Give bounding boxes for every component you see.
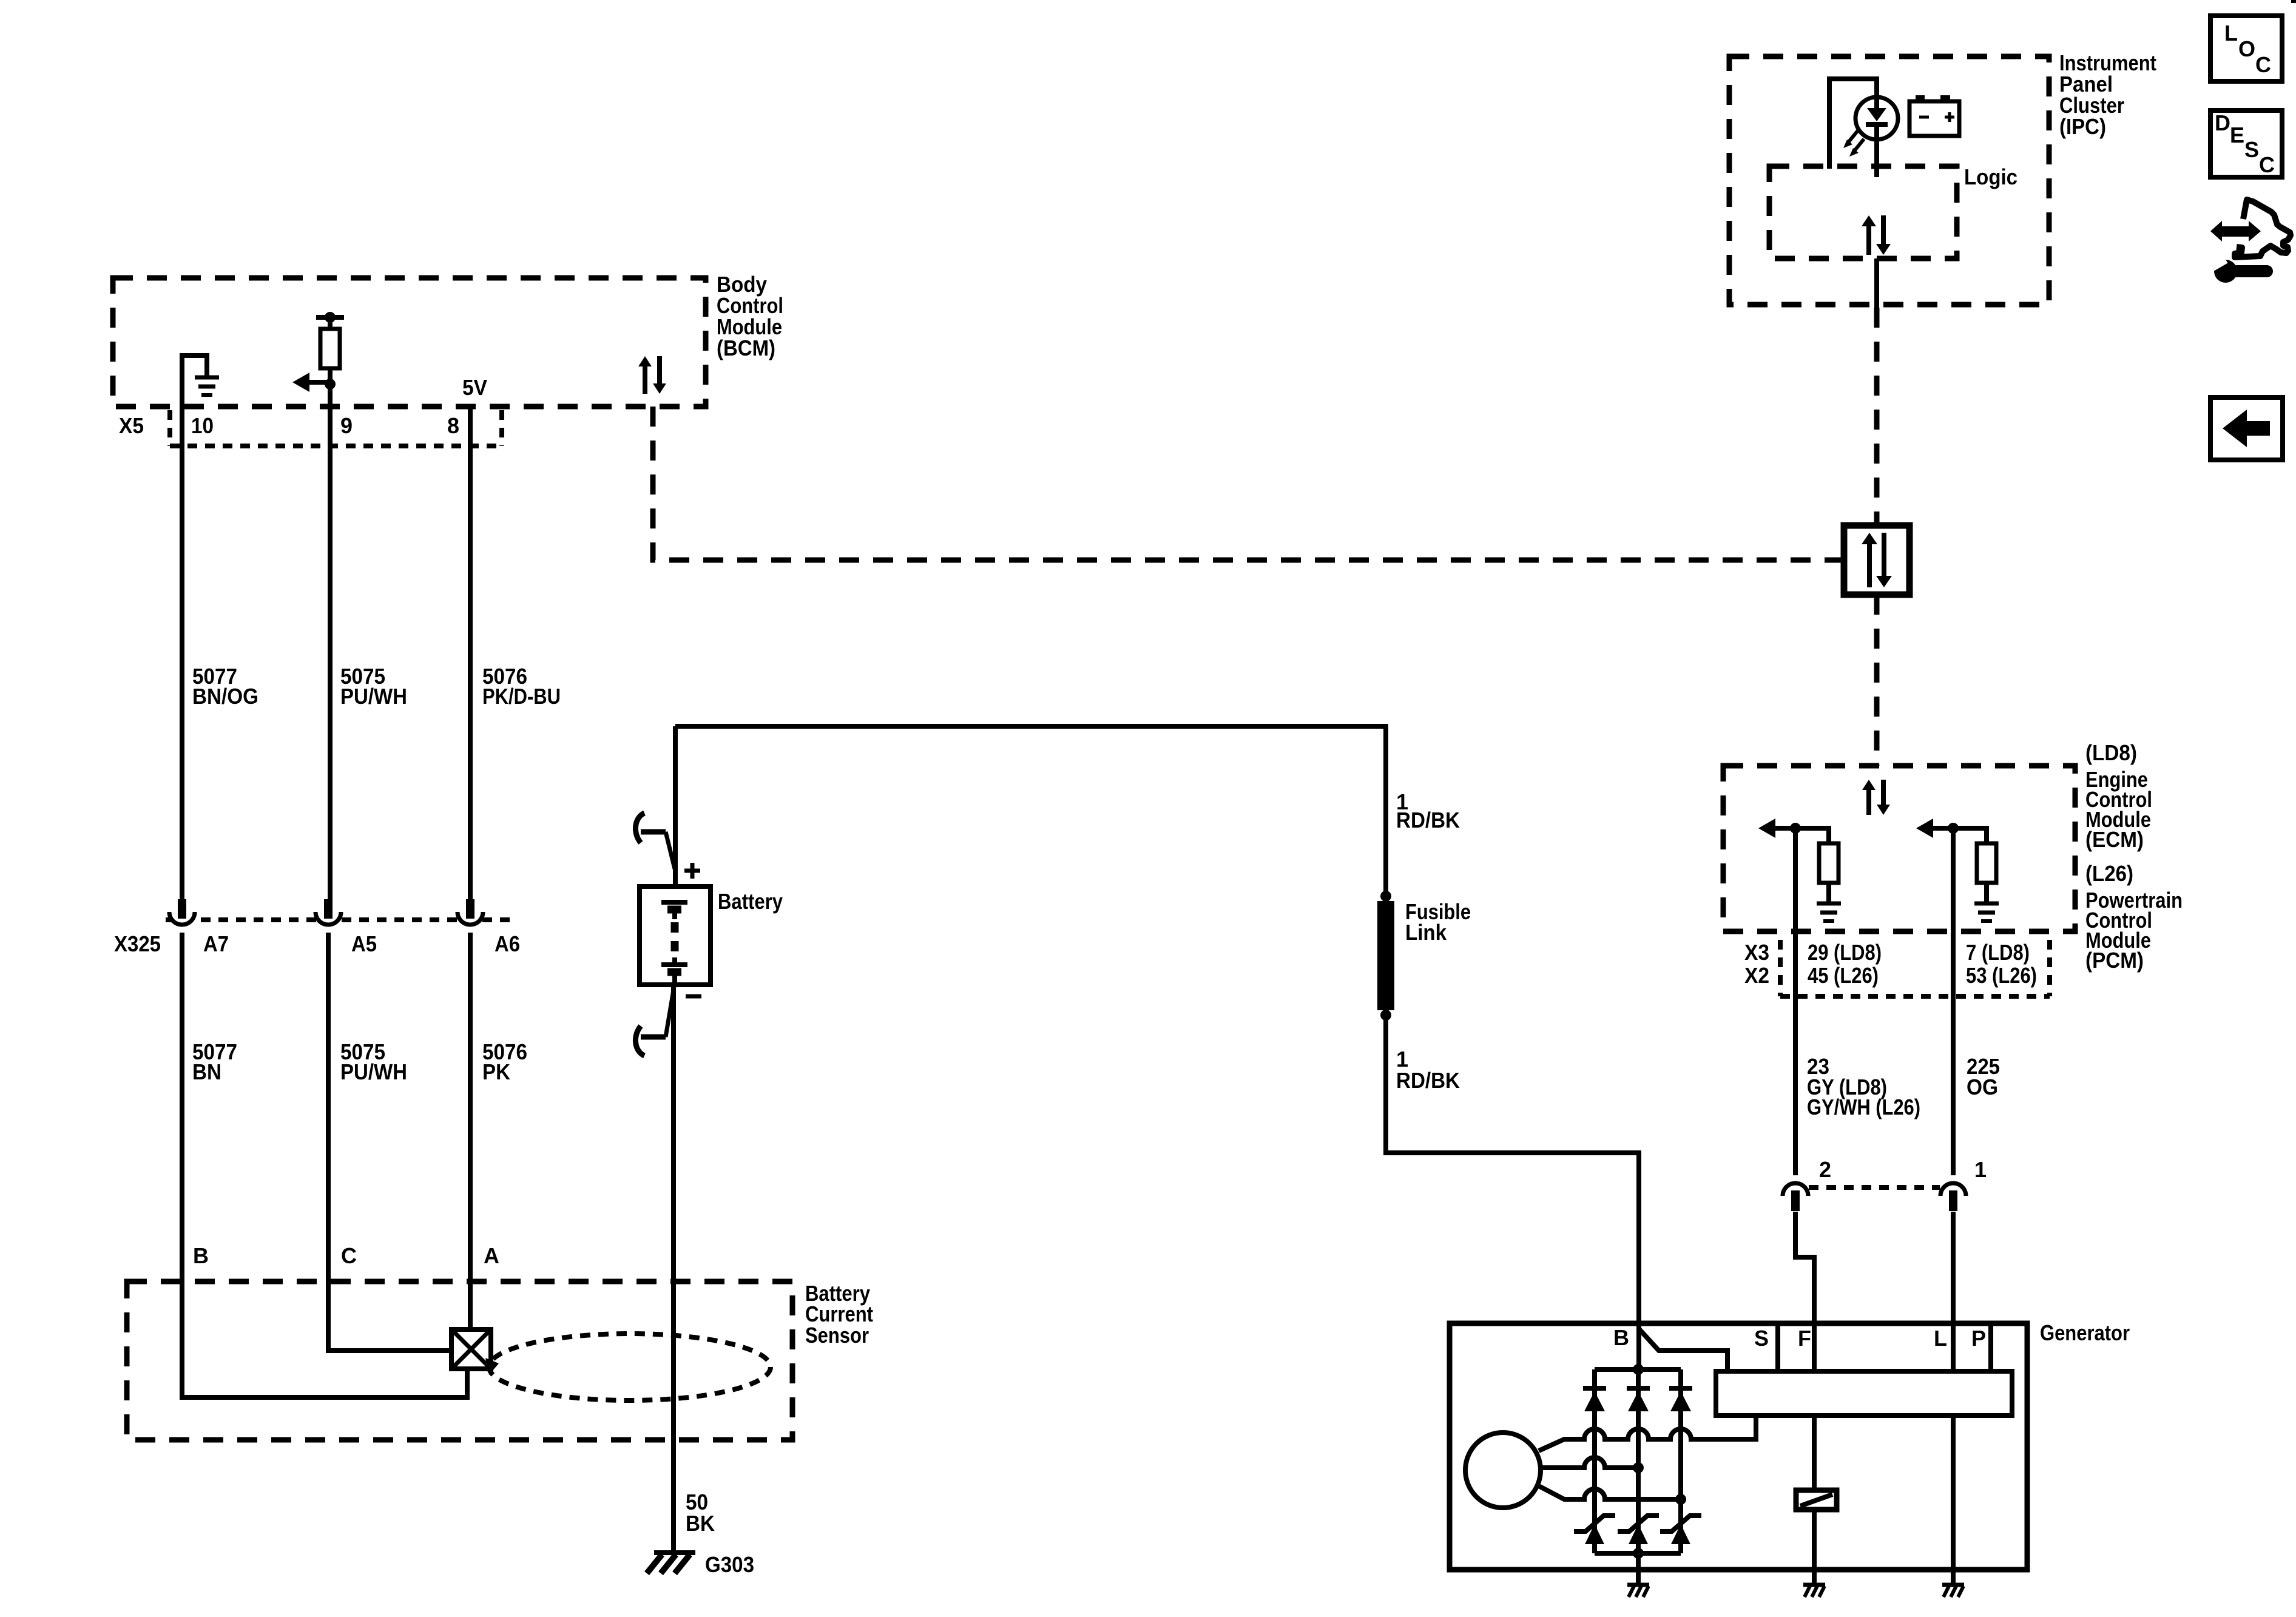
ground G303 (647, 1553, 695, 1573)
svg-text:OG: OG (1967, 1075, 1998, 1099)
svg-text:O: O (2238, 36, 2255, 61)
connector X5 row (170, 410, 502, 446)
label X325 (114, 931, 161, 956)
svg-text:PU/WH: PU/WH (340, 1059, 407, 1084)
wire junction to pull-up (right) (1953, 828, 1987, 843)
label battery minus terminal (686, 994, 701, 999)
wire 5076 PK/D-BU (pin 8 to X325 A6) (468, 447, 473, 899)
svg-text:(L26): (L26) (2085, 861, 2133, 886)
wire pin 1 to L terminal (1951, 1212, 1956, 1371)
svg-text:C: C (341, 1243, 357, 1268)
diode (positive rectifier 3) (1669, 1388, 1692, 1411)
wire 5076 5V output (pin 8, inside) (468, 407, 473, 447)
wire L regulator to ground (1951, 1416, 1956, 1585)
wire 5077 BN/OG (pin 10 to X325 A7) (180, 403, 184, 899)
svg-text:X5: X5 (119, 413, 144, 438)
terminal divider S|F (1775, 1323, 1780, 1371)
node fusible link bottom (1380, 1010, 1391, 1021)
svg-text:A7: A7 (203, 931, 229, 956)
svg-text:GY/WH (L26): GY/WH (L26) (1807, 1095, 1920, 1119)
pin 8 label (447, 413, 459, 438)
rectifier bottom bus (1595, 1551, 1681, 1556)
node phase2-column2 (1633, 1462, 1644, 1473)
pin 1 label (1974, 1157, 1987, 1182)
svg-text:53 (L26): 53 (L26) (1966, 963, 2037, 988)
stator phase 2 winding to column 2 (1541, 1457, 1638, 1468)
wire F regulator to field coil (1812, 1416, 1817, 1490)
pin 29(LD8)/45(L26) label (1808, 940, 1882, 988)
svg-text:45 (L26): 45 (L26) (1808, 963, 1879, 988)
battery icon (gauge symbol) (1909, 95, 1959, 136)
node junction ECM left (1790, 823, 1801, 834)
svg-text:(IPC): (IPC) (2059, 114, 2106, 139)
serial data wire BCM to gateway (dashed) (653, 407, 1843, 560)
svg-text:Link: Link (1405, 920, 1447, 945)
label Generator (2040, 1320, 2130, 1345)
connector terminal 1 (1940, 1183, 1966, 1211)
resistor (ECM left pull-up) (1819, 843, 1838, 883)
svg-text:L: L (2224, 21, 2238, 46)
component box Generator (1450, 1323, 2027, 1570)
label G303 (705, 1552, 754, 1577)
svg-text:A: A (484, 1243, 499, 1268)
stator phase 1 winding to regulator (1539, 1416, 1756, 1451)
connector terminal 2 (1783, 1183, 1808, 1211)
svg-text:X325: X325 (114, 931, 161, 956)
node junction pin 9 (325, 379, 336, 390)
node junction ECM right (1948, 823, 1959, 834)
svg-text:C: C (2255, 52, 2271, 77)
field coil (rotor winding) (1796, 1490, 1837, 1510)
wire IPC serial out (solid) (1874, 258, 1879, 308)
svg-text:(LD8): (LD8) (2085, 740, 2137, 765)
node bottom-bus junction (1633, 1548, 1644, 1559)
terminal B label (1613, 1325, 1629, 1350)
arrow (lamp control signal, ECM right) (1916, 819, 1953, 838)
svg-text:F: F (1798, 1326, 1811, 1351)
label circuit 50 BK (686, 1490, 715, 1536)
label circuit 23 GY (1807, 1054, 1920, 1119)
label Battery Current Sensor (805, 1281, 873, 1348)
svg-text:D: D (2215, 110, 2230, 135)
svg-text:(ECM): (ECM) (2085, 827, 2144, 852)
wire 225 OG (ECM to generator 1) (1951, 828, 1956, 1175)
node phase3-column3 (1675, 1494, 1686, 1505)
wire LED anode loop (1829, 79, 1877, 169)
svg-text:(BCM): (BCM) (717, 336, 775, 360)
pin A label (484, 1243, 499, 1268)
wire 5076 PK (A6 to sensor pin A) (468, 933, 473, 1329)
label circuit 5077 BN/OG (192, 664, 258, 709)
label circuit 1 RD/BK (lower) (1396, 1047, 1460, 1093)
svg-text:C: C (2259, 152, 2275, 177)
symbol serial data arrows (IPC logic) (1862, 215, 1891, 255)
module box ECM/PCM (1723, 766, 2075, 931)
serial data wire gateway to ECM (dashed) (1874, 595, 1880, 766)
label Logic (1964, 164, 2017, 189)
label ECM name (2085, 740, 2152, 852)
svg-text:1: 1 (1974, 1157, 1987, 1182)
connector generator line (1809, 1185, 1940, 1190)
svg-text:(PCM): (PCM) (2085, 948, 2144, 973)
label Fusible Link (1405, 899, 1471, 945)
ground (inside BCM, pin 10) (182, 356, 219, 403)
label Battery (718, 889, 783, 914)
wire junction to pull-up (left) (1795, 828, 1829, 843)
terminal L label (1934, 1326, 1947, 1351)
pin A6 label (495, 931, 520, 956)
svg-text:E: E (2230, 123, 2244, 147)
svg-text:7 (LD8): 7 (LD8) (1966, 940, 2030, 965)
arrow (field control signal, ECM left) (1758, 819, 1795, 838)
icon box back arrow (2210, 397, 2283, 460)
ground (ECM left) (1817, 903, 1841, 921)
label circuit 1 RD/BK (upper) (1396, 789, 1460, 832)
diode (avalanche negative rectifier 2) (1618, 1516, 1659, 1544)
svg-text:8: 8 (447, 413, 459, 438)
wire battery feed top run (675, 726, 1386, 891)
svg-text:B: B (1613, 1325, 1629, 1350)
icon box LOC (2210, 16, 2282, 81)
node B-bus junction (1633, 1364, 1644, 1375)
resistor (BCM pull-up) (320, 329, 340, 368)
svg-text:X3: X3 (1744, 940, 1769, 965)
wire supply to resistor (328, 319, 333, 329)
svg-text:PK: PK (482, 1059, 510, 1084)
serial data wire IPC to gateway (dashed) (1874, 308, 1880, 525)
svg-text:5V: 5V (462, 375, 487, 400)
terminal F label (1798, 1326, 1811, 1351)
svg-text:PU/WH: PU/WH (340, 684, 407, 709)
symbol serial data arrows (BCM) (638, 356, 666, 394)
battery positive clamp (635, 813, 675, 869)
sensor coupling ellipse (dashed) (485, 1334, 771, 1400)
LED emission arrows (1843, 130, 1864, 157)
module box BCM (Body Control Module) (113, 278, 706, 407)
svg-text:BN: BN (192, 1059, 221, 1084)
symbol serial data arrows (ECM) (1862, 780, 1890, 815)
label circuit 225 OG (1967, 1054, 2000, 1099)
module box IPC (Instrument Panel Cluster) (1729, 56, 2049, 305)
pin 2 label (1819, 1157, 1831, 1182)
label circuit 5076 PK (482, 1039, 527, 1084)
wire B sense diagonal to S (1639, 1329, 1727, 1371)
stator phase 3 winding to column 3 (1538, 1485, 1681, 1499)
indicator LED (charge lamp) (1855, 97, 1898, 177)
fusible link element (1377, 901, 1394, 1010)
component box Battery Current Sensor (127, 1281, 792, 1440)
label circuit 5077 BN (192, 1039, 237, 1084)
svg-text:S: S (1754, 1326, 1769, 1351)
connector terminal A5 (316, 899, 341, 925)
svg-text:PK/D-BU: PK/D-BU (482, 684, 561, 709)
module box Logic (inside IPC) (1769, 166, 1957, 258)
wire rectifier to case ground (1636, 1553, 1641, 1585)
pin 7(LD8)/53(L26) label (1966, 940, 2037, 988)
terminal S label (1754, 1326, 1769, 1351)
label circuit 5075 PU/WH (340, 664, 407, 709)
pin C label (341, 1243, 357, 1268)
diode (positive rectifier 2) (1627, 1388, 1650, 1411)
diode (avalanche negative rectifier 1) (1574, 1516, 1615, 1544)
svg-text:S: S (2244, 137, 2259, 162)
svg-text:BN/OG: BN/OG (192, 684, 258, 709)
voltage regulator block (1716, 1371, 2012, 1416)
pin 10 label (191, 413, 214, 438)
svg-text:G303: G303 (705, 1552, 754, 1577)
svg-text:A6: A6 (495, 931, 520, 956)
node B+ (BCM internal supply) (316, 312, 344, 323)
svg-text:RD/BK: RD/BK (1396, 1068, 1460, 1093)
rectifier top bus (1595, 1367, 1681, 1372)
wire 5077 BN (A7 to sensor pin B) (182, 933, 467, 1397)
wire resistor to junction (328, 368, 333, 384)
pin A7 label (203, 931, 229, 956)
svg-text:Logic: Logic (1964, 164, 2017, 189)
label circuit 5076 PK/D-BU (482, 664, 561, 709)
icon hand with arrow and wrench (2208, 200, 2291, 283)
svg-text:BK: BK (686, 1511, 715, 1536)
svg-text:X2: X2 (1744, 963, 1769, 988)
wire 5075 PU/WH (pin 9 to X325 A5) (328, 384, 333, 899)
wire resistor to ground (right) (1984, 883, 1989, 902)
diode (positive rectifier 1) (1583, 1388, 1606, 1411)
wire 23 GY (ECM to generator 2) (1793, 828, 1798, 1175)
label X3 X2 (1744, 940, 1769, 988)
wire fusible link to generator B (1386, 1015, 1639, 1369)
svg-text:Sensor: Sensor (805, 1323, 869, 1348)
resistor (ECM right pull-up) (1977, 843, 1996, 883)
rectifier column 2 wire (1636, 1369, 1641, 1553)
label X5 (119, 413, 144, 438)
label BCM name (717, 272, 783, 360)
svg-text:B: B (193, 1243, 209, 1268)
pin 9 label (340, 413, 353, 438)
stator winding circle (1465, 1433, 1541, 1508)
terminal P label (1971, 1326, 1986, 1351)
wire resistor to ground (left) (1826, 883, 1831, 902)
rectifier column 1 wire (1592, 1369, 1597, 1553)
ground (generator L) (1942, 1585, 1964, 1597)
page corner mark (2291, 0, 2296, 3)
svg-text:2: 2 (1819, 1157, 1831, 1182)
sensor element (hall sensor X-box) (451, 1329, 491, 1369)
battery negative clamp (635, 983, 675, 1056)
label circuit 5075 PU/WH (340, 1039, 407, 1084)
arrow (signal into BCM logic) (292, 373, 330, 392)
svg-text:RD/BK: RD/BK (1396, 808, 1460, 832)
connector X325 line (166, 917, 510, 922)
svg-text:9: 9 (340, 413, 353, 438)
node fusible link top (1380, 891, 1391, 902)
terminal divider L|P (1988, 1323, 1993, 1371)
wire battery negative to G303 (50 BK) (671, 985, 676, 1555)
label PCM name (2085, 861, 2183, 973)
svg-text:10: 10 (191, 413, 214, 438)
svg-text:Generator: Generator (2040, 1320, 2130, 1345)
connector X3/X2 row (1780, 940, 2050, 996)
wire 5075 PU/WH (A5 to sensor pin C) (328, 933, 451, 1351)
pin A5 label (351, 931, 377, 956)
rectifier column 3 wire (1678, 1369, 1683, 1553)
svg-text:L: L (1934, 1326, 1947, 1351)
ground (generator F) (1803, 1585, 1825, 1597)
svg-text:P: P (1971, 1326, 1986, 1351)
wire B into rectifier bus (1638, 1367, 1639, 1372)
diode (avalanche negative rectifier 3) (1660, 1516, 1701, 1544)
label 5V reference (462, 375, 487, 400)
gateway box (serial data node) (1844, 525, 1909, 595)
wire battery positive up (673, 726, 678, 886)
ground (ECM right) (1974, 903, 1999, 921)
connector terminal A6 (458, 899, 483, 925)
ground (generator case) (1627, 1585, 1649, 1597)
connector terminal A7 (169, 899, 195, 925)
wire pin 2 to F terminal (1795, 1212, 1814, 1371)
symbol serial data arrows (gateway) (1862, 533, 1892, 587)
svg-text:A5: A5 (351, 931, 377, 956)
label IPC name (2059, 50, 2156, 139)
battery Battery (640, 886, 711, 985)
label battery plus terminal (684, 863, 700, 879)
icon box DESC (2210, 110, 2282, 177)
pin B label (193, 1243, 209, 1268)
svg-text:Battery: Battery (718, 889, 783, 914)
wire field coil to ground (1812, 1510, 1817, 1585)
svg-text:29 (LD8): 29 (LD8) (1808, 940, 1882, 965)
